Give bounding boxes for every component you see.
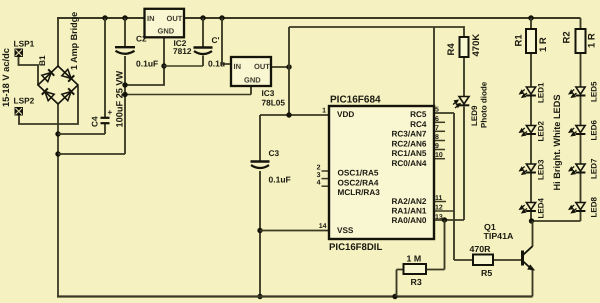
- label 7812: [173, 46, 192, 56]
- resistor R5: [473, 255, 493, 266]
- svg-text:470K: 470K: [471, 34, 482, 57]
- terminal LSP1: [15, 49, 24, 58]
- wire pin13 stub: [434, 219, 464, 221]
- svg-text:RC3/AN7: RC3/AN7: [391, 130, 426, 139]
- wire rail down to C2: [124, 18, 126, 47]
- label LED9: [470, 105, 479, 126]
- IC U1 PIC16F684 body: [329, 106, 434, 239]
- wire +5V vertical: [288, 27, 290, 115]
- label IC3 GND: [244, 75, 261, 84]
- pin label OSC1/RA5: [338, 169, 379, 178]
- pin label MCLR/RA3: [338, 188, 381, 197]
- svg-text:LED4: LED4: [537, 198, 546, 219]
- svg-text:PIC16F8DIL: PIC16F8DIL: [329, 242, 382, 253]
- svg-text:C4: C4: [90, 116, 100, 127]
- label 78L05: [262, 97, 286, 107]
- label LED5: [590, 81, 599, 102]
- wire C3 bottom to 0V rail: [259, 171, 261, 296]
- wire C' bottom to gnd link: [202, 56, 204, 67]
- svg-text:RC0/AN4: RC0/AN4: [391, 159, 426, 168]
- node C2 gnd junction B: [122, 92, 127, 97]
- svg-text:1 R: 1 R: [587, 33, 598, 48]
- node IC2 gnd junction: [161, 63, 166, 68]
- capacitor C4: [101, 118, 110, 123]
- svg-text:12: 12: [435, 205, 443, 212]
- wire bridge - output down to 0V rail: [57, 104, 59, 296]
- wire LSP2 to bridge right corner: [19, 86, 78, 124]
- label IC3 OUT: [254, 62, 270, 71]
- wire rail to R2: [580, 18, 582, 29]
- svg-text:0.1uF: 0.1uF: [269, 175, 291, 185]
- svg-text:4: 4: [317, 180, 321, 187]
- pin numbers right: [435, 107, 443, 222]
- label R1: [514, 34, 525, 47]
- node C3 ground junction: [257, 294, 262, 299]
- node rail-IC3 junction: [219, 15, 224, 20]
- svg-text:GND: GND: [244, 75, 261, 84]
- LED5: [569, 87, 585, 97]
- svg-text:RC1/AN5: RC1/AN5: [391, 149, 426, 158]
- label LED8: [590, 197, 599, 218]
- regulator IC2 body: [145, 9, 185, 38]
- wire LED6-LED7: [580, 135, 582, 165]
- terminal LSP2: [15, 107, 24, 116]
- label IC2: [174, 38, 187, 48]
- svg-text:B1: B1: [37, 55, 47, 66]
- label C': [212, 35, 220, 45]
- label LED2: [537, 121, 546, 142]
- node +5V junction at IC3 OUT: [286, 64, 291, 69]
- svg-text:LED3: LED3: [537, 159, 546, 180]
- node rail-C' junction: [200, 15, 205, 20]
- svg-text:C': C': [212, 35, 220, 45]
- svg-text:LED5: LED5: [590, 81, 599, 102]
- svg-text:IN: IN: [234, 62, 242, 71]
- wire R4 to LED9: [463, 57, 465, 97]
- LED4: [520, 203, 536, 213]
- svg-text:RC4: RC4: [410, 120, 427, 129]
- svg-text:RA0/AN0: RA0/AN0: [391, 216, 426, 225]
- wire LED1-LED2: [530, 96, 532, 126]
- svg-text:TIP41A: TIP41A: [484, 231, 514, 241]
- wire pin13 to R3: [426, 220, 445, 270]
- svg-text:IN: IN: [147, 14, 155, 23]
- wire top +12V rail: [57, 17, 581, 19]
- svg-text:0.1uF: 0.1uF: [136, 59, 158, 69]
- label R5: [481, 268, 492, 278]
- svg-text:LSP1: LSP1: [14, 39, 35, 49]
- label Q1: [484, 222, 496, 232]
- wire VSS line to PIC pin14: [260, 230, 329, 232]
- LED7: [569, 164, 585, 174]
- wire LED2-LED3: [530, 135, 532, 165]
- wire C2 bottom down to ground link: [124, 56, 126, 154]
- svg-text:RA2/AN2: RA2/AN2: [391, 197, 426, 206]
- label C2: [136, 34, 147, 44]
- svg-text:6: 6: [435, 116, 439, 123]
- wire IC3 GND return line: [125, 94, 251, 96]
- wire pin6-10 stubs: [434, 122, 445, 158]
- svg-text:100uF 25 VW: 100uF 25 VW: [115, 70, 125, 127]
- wire R1 drop: [530, 18, 532, 29]
- label IC2 OUT: [167, 14, 183, 23]
- label Photo diode: [480, 81, 489, 128]
- svg-text:Hi Bright. White LEDS: Hi Bright. White LEDS: [552, 95, 562, 191]
- photodiode LED9: [453, 97, 469, 109]
- svg-text:+: +: [108, 108, 113, 117]
- svg-text:1: 1: [322, 108, 326, 115]
- label R3 value 1 M: [407, 254, 422, 264]
- svg-text:5: 5: [435, 107, 439, 114]
- label C2 value 0.1uF: [136, 59, 158, 69]
- wire LED8 to collector line: [580, 212, 582, 222]
- resistor R2: [576, 29, 586, 53]
- wire rail down to IC3 IN: [222, 18, 231, 64]
- svg-text:LSP2: LSP2: [14, 96, 35, 106]
- wire bridge + output to rail: [57, 18, 59, 67]
- label R2 value 1R: [587, 33, 598, 48]
- svg-text:R2: R2: [562, 31, 573, 43]
- label R2: [562, 31, 573, 43]
- node bridge-C4 ground junction: [55, 131, 60, 136]
- wire ground link to C4 bottom: [58, 124, 105, 134]
- label LED3: [537, 159, 546, 180]
- label TIP41A: [484, 231, 514, 241]
- svg-text:VSS: VSS: [337, 226, 354, 235]
- wire pin12 stub: [434, 210, 454, 212]
- wire rail down to C': [202, 18, 204, 47]
- svg-text:3: 3: [317, 172, 321, 179]
- svg-text:13: 13: [435, 214, 443, 221]
- svg-text:7: 7: [435, 125, 439, 132]
- wire R3 left to ground: [397, 270, 404, 297]
- wire rail down to C4 +: [104, 18, 106, 117]
- svg-text:10: 10: [435, 152, 443, 159]
- label R4: [446, 43, 457, 56]
- svg-text:1 M: 1 M: [407, 254, 422, 264]
- svg-text:1 Amp Bridge: 1 Amp Bridge: [69, 12, 79, 70]
- svg-text:1 R: 1 R: [538, 37, 549, 52]
- svg-text:15-18 V ac/dc: 15-18 V ac/dc: [1, 48, 11, 107]
- wire LED4 to collector node: [530, 212, 532, 222]
- svg-text:LED2: LED2: [537, 121, 546, 142]
- wire gnd link C2 to C': [164, 65, 204, 67]
- label C4 plus: [108, 108, 113, 117]
- label LED7: [590, 158, 599, 179]
- LED3: [520, 164, 536, 174]
- svg-text:2: 2: [317, 165, 321, 172]
- wire LED7-LED8: [580, 173, 582, 203]
- svg-text:C3: C3: [269, 148, 280, 158]
- resistor R1: [526, 29, 536, 53]
- wire LED strings join: [531, 220, 581, 222]
- wire IC3 GND stub: [250, 86, 252, 95]
- wire +5V top feed to R4: [289, 27, 464, 37]
- label 15-18 V ac/dc: [1, 48, 11, 107]
- wire LSP1 to bridge left corner: [19, 57, 39, 85]
- label R4 value 470K: [471, 34, 482, 57]
- wire LED5-LED6: [580, 96, 582, 126]
- svg-text:PIC16F684: PIC16F684: [330, 95, 381, 106]
- label IC3: [262, 88, 275, 98]
- regulator IC3 body: [231, 57, 271, 86]
- svg-text:GND: GND: [158, 27, 175, 36]
- svg-text:LED9: LED9: [470, 105, 479, 126]
- label LED6: [590, 120, 599, 141]
- wire pin5 to R5: [434, 113, 473, 260]
- svg-text:OSC2/RA4: OSC2/RA4: [338, 179, 379, 188]
- svg-text:LED6: LED6: [590, 120, 599, 141]
- pin labels right column: [391, 110, 426, 225]
- LED1: [520, 87, 536, 97]
- svg-text:14: 14: [319, 223, 327, 230]
- wire collector vertical: [532, 221, 534, 247]
- wire IC3 OUT to +5V node: [271, 66, 289, 68]
- svg-text:OSC1/RA5: OSC1/RA5: [338, 169, 379, 178]
- svg-text:LED7: LED7: [590, 158, 599, 179]
- bridge rectifier B1: [38, 66, 78, 104]
- svg-text:470R: 470R: [470, 244, 492, 254]
- node LED join junction: [529, 218, 534, 223]
- node rail-R1 junction: [528, 15, 533, 20]
- wire ground link to C2 bottom: [58, 153, 125, 155]
- svg-text:OUT: OUT: [254, 62, 270, 71]
- svg-text:RC5: RC5: [410, 110, 427, 119]
- label IC2 GND: [158, 27, 175, 36]
- svg-text:9: 9: [435, 143, 439, 150]
- label R1 value 1R: [538, 37, 549, 52]
- label LSP2: [14, 96, 35, 106]
- wire +5V drop to PIC corner: [433, 27, 435, 106]
- label IC3 IN: [234, 62, 242, 71]
- wire R2 to LED5: [580, 53, 582, 87]
- label IC2 IN: [147, 14, 155, 23]
- label LED1: [537, 82, 546, 103]
- svg-text:R4: R4: [446, 43, 457, 56]
- pin label OSC2/RA4: [338, 179, 379, 188]
- resistor R3: [404, 264, 427, 274]
- wire R5 to Q1 base: [493, 259, 522, 261]
- label C' value 0.1u: [208, 59, 225, 69]
- wire LED9 to pin13 line: [463, 107, 465, 221]
- wire R1 to LED1: [530, 53, 532, 87]
- svg-text:OUT: OUT: [167, 14, 183, 23]
- label PIC16F684: [330, 95, 381, 106]
- capacitor C2: [115, 47, 135, 54]
- label B1: [37, 55, 47, 66]
- capacitor C': [194, 48, 213, 55]
- capacitor C3: [251, 162, 270, 169]
- label 1 Amp Bridge: [69, 12, 79, 70]
- node VDD-C3 tee: [286, 112, 291, 117]
- node C2 gnd junction A: [122, 82, 127, 87]
- pin label VSS: [337, 226, 354, 235]
- svg-text:78L05: 78L05: [262, 97, 286, 107]
- wire IC2 GND down: [125, 36, 164, 85]
- svg-text:VDD: VDD: [337, 110, 354, 119]
- LED8: [569, 203, 585, 213]
- transistor Q1: [523, 246, 535, 270]
- pin numbers left: [317, 108, 327, 231]
- svg-text:Photo diode: Photo diode: [480, 81, 489, 128]
- LED2: [520, 126, 536, 136]
- LED6: [569, 126, 585, 136]
- svg-text:0.1u: 0.1u: [208, 59, 225, 69]
- svg-text:7812: 7812: [173, 46, 192, 56]
- wire pin11 stub: [434, 201, 446, 203]
- wire LED3-LED4: [530, 173, 532, 203]
- label LSP1: [14, 39, 35, 49]
- svg-text:8: 8: [435, 134, 439, 141]
- wire VDD line to PIC pin1: [260, 114, 329, 116]
- node R3 ground junction: [392, 294, 397, 299]
- node VSS junction: [257, 228, 262, 233]
- label 100uF 25 VW: [115, 70, 125, 127]
- svg-text:RA1/AN1: RA1/AN1: [391, 207, 426, 216]
- wire C3 top: [259, 115, 261, 161]
- label C3 value 0.1uF: [269, 175, 291, 185]
- svg-text:LED8: LED8: [590, 197, 599, 218]
- resistor R4: [460, 37, 469, 57]
- label LED4: [537, 198, 546, 219]
- node bridge-C2 ground junction: [55, 151, 60, 156]
- label R5 value 470R: [470, 244, 492, 254]
- node rail-C4 junction: [102, 15, 107, 20]
- wire emitter to 0V rail: [532, 270, 534, 297]
- wire pin2-4 stubs: [322, 171, 330, 186]
- svg-text:R5: R5: [481, 268, 492, 278]
- svg-text:RC2/AN6: RC2/AN6: [391, 139, 426, 148]
- pin label VDD: [337, 110, 354, 119]
- node pin13 junction: [442, 217, 447, 222]
- svg-text:R1: R1: [514, 34, 525, 47]
- svg-text:MCLR/RA3: MCLR/RA3: [338, 188, 381, 197]
- label PIC16F8DIL: [329, 242, 382, 253]
- label C3: [269, 148, 280, 158]
- svg-text:LED1: LED1: [537, 82, 546, 103]
- label C4: [90, 116, 100, 127]
- label Hi Bright. White LEDS: [552, 95, 562, 191]
- wire bottom 0V rail: [57, 295, 533, 297]
- label R3: [411, 277, 422, 287]
- svg-text:11: 11: [435, 195, 443, 202]
- node rail-C2 junction: [122, 15, 127, 20]
- svg-text:R3: R3: [411, 277, 422, 287]
